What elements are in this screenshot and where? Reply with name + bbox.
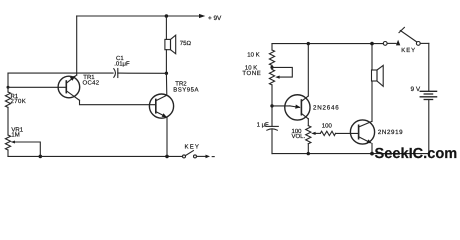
wire: speaker top to top rail [371,44,373,70]
resistor 10K [269,50,274,65]
svg-text:2N2646: 2N2646 [313,105,339,112]
svg-text:+ 9V: + 9V [208,15,222,22]
wire: 100 resistor to 2N2919 base [336,132,359,134]
resistor R1 270K [5,92,10,107]
wire: 2N2919 emitter to bottom rail [371,144,373,154]
node: junction dot C1 line / collector line [165,72,168,75]
wire: 10K bottom to junction [271,65,273,69]
VR1 wiper arm [11,141,41,157]
potentiometer 10K TONE [269,70,274,85]
svg-text:9 V: 9 V [411,86,421,93]
svg-text:100: 100 [322,123,333,130]
node: junction dot base of TR1 / R1 top [7,86,10,89]
wire: right circuit bottom rail [272,153,429,155]
capacitor C1 .01uF [114,69,118,78]
svg-text:VOL.: VOL. [292,133,306,140]
svg-text:OC42: OC42 [83,79,100,86]
speaker LS1 75ohm (left circuit) [165,35,176,54]
svg-text:10 K: 10 K [247,51,259,58]
svg-text:TR2: TR2 [175,80,187,87]
wire: TR1 base lead [8,86,66,88]
speaker LS2 (right circuit) [372,65,384,86]
resistor 100 [320,131,335,135]
svg-text:270K: 270K [11,98,27,105]
wire: top rail corner down to battery [428,43,430,91]
TONE pot wiper loop [272,67,292,78]
svg-text:1M: 1M [11,131,19,138]
wire: VR1 bottom to bottom rail [7,150,9,156]
wire: TONE bottom to UJT emitter node [271,85,273,127]
transistor TR1 OC42 [58,75,80,100]
capacitor 1uF [266,126,279,130]
UJT emitter lead [272,105,301,109]
node: junction dot between 10K and TONE pot [270,66,273,69]
potentiometer 100 VOL [306,126,311,144]
wire: UJT base1 down to VOL pot [307,119,309,126]
transistor TR2 BSY95A [149,94,173,118]
node: junction dot top rail / speaker branch [165,14,169,18]
wire: vertical from top rail down to TR1 emitter [76,16,78,75]
svg-text:1 μF: 1 μF [257,121,269,128]
svg-text:SeekIC.com: SeekIC.com [375,146,458,162]
svg-text:KEY: KEY [401,47,416,54]
node: junction dot UJT emitter node [270,104,273,107]
wire: 1uF bottom to bottom rail corner [271,129,273,154]
switch KEY (left circuit) [183,151,215,159]
battery B1 9V [420,91,436,99]
node: junction dot speaker branch on top rail [370,42,374,46]
node: junction dot VR1 wiper on bottom rail [39,155,43,159]
wire: 2N2919 collector up to speaker [371,81,373,121]
svg-text:75Ω: 75Ω [180,40,192,47]
node: junction dot VOL bottom on rail [307,152,310,155]
svg-text:.01μF: .01μF [114,61,130,68]
wire: left circuit bottom rail [8,155,183,157]
wire: left vertical rail top segment [7,73,9,92]
svg-text:BSY95A: BSY95A [173,86,199,93]
switch KEY (right circuit) [383,27,428,45]
svg-text:TONE: TONE [242,70,261,77]
wire: right circuit top rail [272,43,383,45]
wire: between R1 and VR1 [7,107,9,135]
svg-text:2N2919: 2N2919 [378,129,403,136]
node: junction dot base2 on top rail [307,42,310,45]
wire: TR2 collector up to C1 node [165,73,167,95]
svg-text:KEY: KEY [185,144,201,151]
wire: VOL bottom to bottom rail [307,144,309,154]
wire: C1 right plate to junction [118,72,167,74]
node: junction dot TR2 emitter on bottom rail [165,155,169,159]
unijunction transistor Q1 2N2646 [285,95,310,120]
wire: TR2 emitter down to bottom rail [166,117,168,156]
wire: speaker branch down from top rail [165,16,167,39]
wire: TR1 collector to TR2 base [80,100,156,104]
node: +9V arrowhead [199,14,205,18]
wire: UJT base2 up to top rail [307,44,309,96]
potentiometer VR1 1M [5,135,10,150]
wire: left circuit +9V top rail [77,15,200,17]
node: junction dot emitter on bottom rail [370,152,374,156]
wire: battery bottom down to bottom rail [428,100,430,154]
wire: speaker bottom down to C1 node [165,50,167,74]
wire: right circuit left vertical top segment [271,44,273,50]
wire: left rail top horizontal (base node to C1) [8,72,113,74]
transistor Q2 2N2919 [350,120,374,144]
VOL wiper arm [311,132,320,135]
